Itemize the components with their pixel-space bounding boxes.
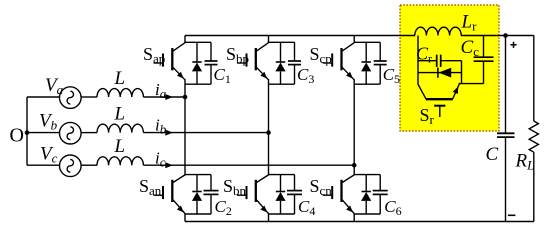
- svg-text:L: L: [114, 103, 126, 124]
- wire top bracket bottom-switch leg c: [354, 174, 380, 176]
- wire source to inductor b: [81, 132, 97, 134]
- capacitor C2: [210, 175, 212, 191]
- wire capacitor stub C1 top: [210, 42, 212, 61]
- capacitor Cr: [418, 60, 436, 62]
- AC source Vb: [60, 122, 82, 144]
- wire top bracket leg a: [184, 41, 211, 43]
- node phase c junction: [352, 163, 357, 168]
- svg-text:ib: ib: [155, 116, 167, 137]
- wire load branch vertical top: [533, 36, 535, 122]
- inductor L phase b: [97, 124, 143, 132]
- svg-text:Sbn: Sbn: [223, 176, 247, 198]
- wire top bracket leg b: [268, 41, 295, 43]
- diode Dr: [418, 72, 462, 74]
- wire to load top: [506, 35, 534, 37]
- wire bottom bracket top-switch leg a: [185, 83, 211, 85]
- svg-text:C1: C1: [214, 65, 231, 86]
- svg-text:C6: C6: [384, 197, 401, 218]
- highlight box (resonant snubber region): [400, 5, 499, 131]
- wire snubber bottom horizontal: [459, 83, 484, 85]
- capacitor C1: [205, 60, 218, 62]
- diode Dbp: [280, 42, 282, 62]
- wire collector stub leg a: [184, 36, 186, 43]
- svg-text:L: L: [114, 68, 126, 89]
- svg-text:L: L: [114, 136, 126, 157]
- current arrow ib: [165, 130, 173, 136]
- AC source Va: [60, 87, 82, 109]
- wire source to inductor c: [81, 164, 97, 166]
- diode Dcp: [365, 42, 367, 62]
- capacitor Cc: [483, 36, 485, 58]
- node O: [25, 130, 30, 135]
- svg-text:RL: RL: [515, 151, 535, 173]
- capacitor C (dc link): [497, 132, 515, 134]
- svg-text:ic: ic: [155, 148, 166, 169]
- wire output cap top: [505, 36, 507, 134]
- node phase a junction: [183, 95, 188, 100]
- minus label: [508, 214, 516, 216]
- wire top bracket leg c: [354, 41, 381, 43]
- diode Dcn: [365, 175, 367, 192]
- IGBT Sbn: [255, 180, 257, 202]
- wire phase b from bus to source: [27, 132, 60, 134]
- diode Dbn: [280, 175, 282, 192]
- wire emitter stub to rail leg b: [268, 174, 270, 177]
- wire load branch vertical bottom: [533, 152, 535, 221]
- wire emitter/leg vertical b: [268, 79, 270, 174]
- svg-text:San: San: [139, 176, 162, 198]
- plus label: [510, 44, 516, 46]
- svg-text:C5: C5: [383, 65, 400, 86]
- node DC+ output junction: [503, 33, 508, 38]
- diode Dan: [196, 175, 198, 192]
- wire snubber left vertical: [417, 36, 419, 85]
- wire source bus vertical: [26, 97, 28, 165]
- IGBT Sbp: [255, 48, 257, 70]
- capacitor C6: [379, 175, 381, 191]
- wire bottom bracket top-switch leg b: [269, 83, 295, 85]
- capacitor C4: [294, 175, 296, 191]
- wire capacitor stub C5 top: [379, 42, 381, 61]
- wire source to inductor a: [81, 96, 97, 98]
- IGBT Scn: [340, 180, 342, 202]
- svg-text:C: C: [486, 144, 499, 165]
- svg-text:Vc: Vc: [40, 143, 58, 165]
- wire emitter stub to rail leg c: [353, 174, 355, 177]
- wire capacitor stub C5 bottom: [379, 65, 381, 85]
- capacitor C5: [374, 60, 387, 62]
- wire bottom bracket leg a: [185, 213, 211, 215]
- diode Dap: [196, 42, 198, 62]
- current arrow ic: [165, 162, 173, 168]
- IGBT Sr: [426, 98, 453, 100]
- wire capacitor stub C3 top: [294, 42, 296, 61]
- svg-text:C4: C4: [298, 197, 315, 218]
- wire capacitor stub C3 bottom: [294, 65, 296, 85]
- wire capacitor stub C1 bottom: [210, 65, 212, 85]
- AC source Vc: [60, 155, 82, 177]
- svg-text:Sbp: Sbp: [226, 44, 249, 66]
- wire snubber right vertical: [461, 61, 463, 84]
- wire phase a from bus to source: [27, 96, 60, 98]
- wire bottom bracket top-switch leg c: [354, 83, 380, 85]
- IGBT Sap: [171, 48, 173, 70]
- wire bottom bracket leg c: [354, 213, 380, 215]
- svg-text:O: O: [10, 125, 24, 147]
- wire inductor to leg b: [143, 132, 268, 134]
- wire DC- bottom rail: [185, 221, 534, 223]
- wire collector stub leg c: [353, 36, 355, 43]
- wire emitter/leg vertical c: [353, 79, 355, 174]
- IGBT San: [171, 180, 173, 202]
- inductor L phase a: [97, 89, 143, 97]
- wire inductor to leg c: [143, 164, 354, 166]
- node phase b junction: [266, 130, 271, 135]
- wire output cap bottom: [505, 137, 507, 221]
- capacitor C3: [288, 60, 301, 62]
- wire bottom bracket leg b: [269, 213, 295, 215]
- wire phase c from bus to source: [27, 164, 60, 166]
- svg-text:C3: C3: [297, 65, 314, 86]
- inductor Lr: [415, 27, 461, 35]
- wire collector stub leg b: [268, 36, 270, 43]
- wire DC+ rail after Lr: [461, 35, 506, 37]
- svg-text:C2: C2: [215, 197, 232, 218]
- wire DC+ top rail: [185, 35, 415, 37]
- resistor RL: [529, 121, 538, 152]
- wire emitter stub to rail leg a: [184, 174, 186, 177]
- wire emitter/leg vertical a: [184, 79, 186, 174]
- current arrow ia: [165, 94, 173, 100]
- svg-text:ia: ia: [155, 80, 167, 101]
- wire inductor to leg a: [143, 96, 185, 98]
- inductor L phase c: [97, 157, 143, 165]
- svg-text:Scn: Scn: [310, 176, 333, 198]
- svg-text:Sap: Sap: [143, 44, 165, 66]
- svg-text:Vb: Vb: [39, 111, 58, 133]
- svg-text:Va: Va: [45, 75, 64, 97]
- svg-text:Scp: Scp: [310, 44, 332, 66]
- IGBT Scp: [340, 48, 342, 70]
- wire top bracket bottom-switch leg b: [269, 174, 295, 176]
- wire top bracket bottom-switch leg a: [185, 174, 211, 176]
